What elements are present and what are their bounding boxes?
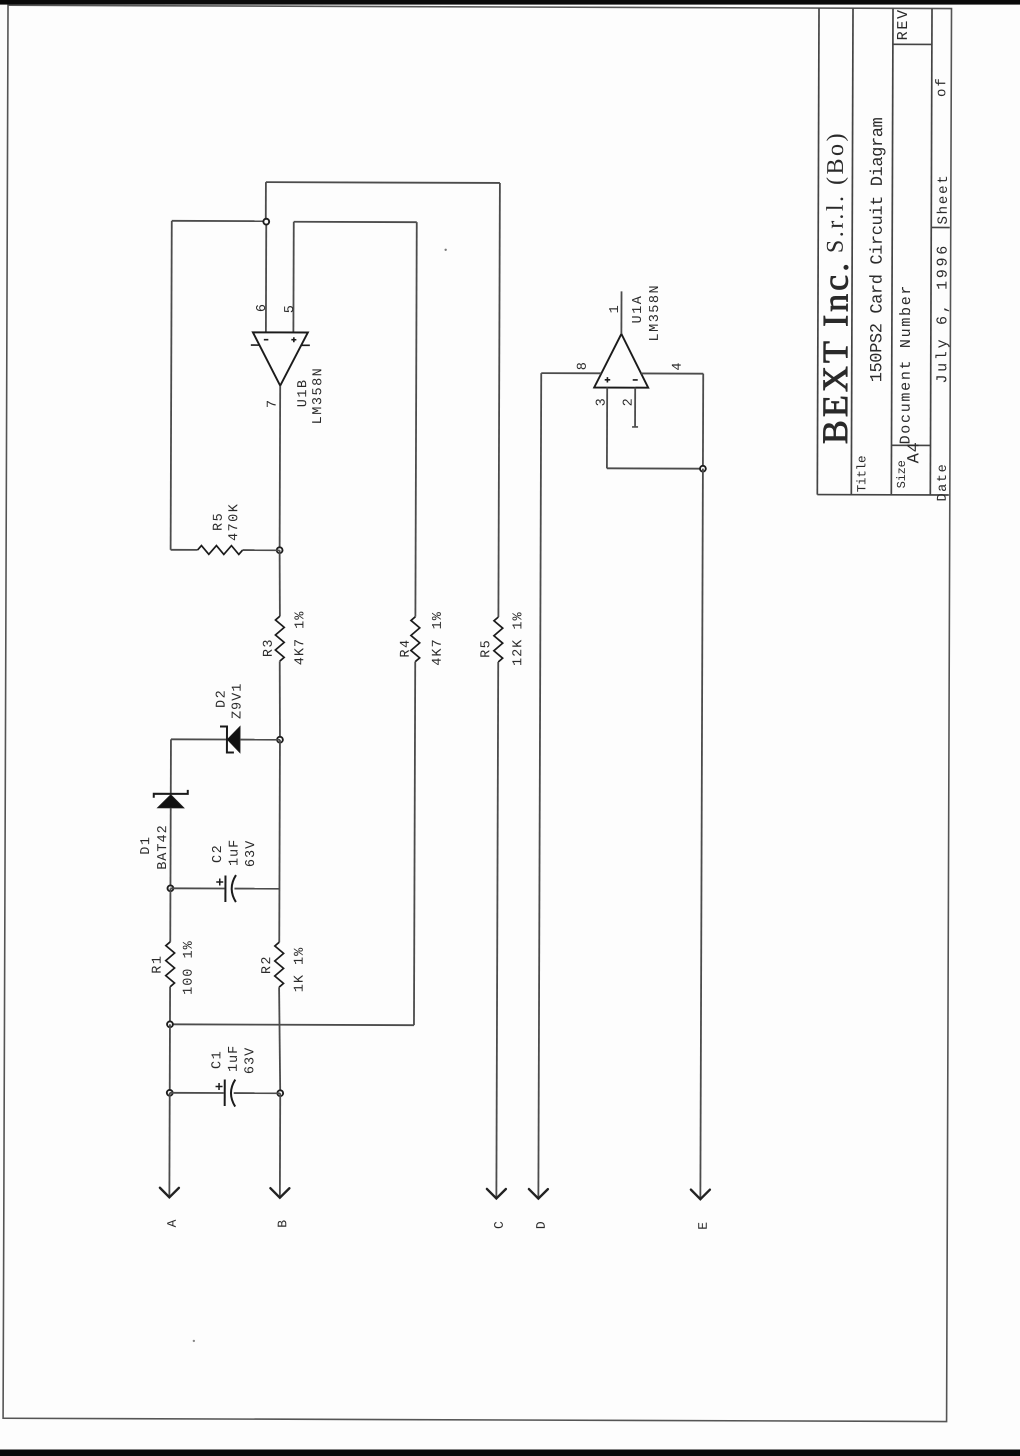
title block row divider (title/size) bbox=[891, 8, 893, 494]
U1B minus sign bbox=[264, 339, 268, 341]
svg-text:S.r.l. (Bo): S.r.l. (Bo) bbox=[823, 131, 849, 253]
resistor R4 zigzag bbox=[411, 617, 420, 662]
capacitor C2 curved plate bbox=[232, 875, 236, 902]
diode D1 triangle bbox=[158, 795, 184, 808]
svg-text:3: 3 bbox=[595, 398, 610, 406]
svg-text:1uF: 1uF bbox=[227, 1045, 242, 1072]
svg-text:U1B: U1B bbox=[296, 378, 311, 407]
svg-text:C1: C1 bbox=[210, 1050, 225, 1069]
U1A minus sign bbox=[633, 379, 638, 381]
wire C1 node to arrow B bbox=[279, 1093, 281, 1197]
node junction R5/pin7 bbox=[277, 547, 283, 553]
svg-text:1: 1 bbox=[608, 305, 623, 313]
svg-text:LM358N: LM358N bbox=[648, 284, 663, 342]
wire C2 right bbox=[234, 888, 279, 890]
svg-text:July 6, 1996: July 6, 1996 bbox=[934, 243, 951, 383]
wire pin 4 bbox=[641, 372, 703, 374]
svg-text:2: 2 bbox=[622, 398, 637, 406]
svg-text:REV: REV bbox=[895, 8, 912, 40]
wire R3 to D2 node bbox=[278, 661, 281, 740]
wire C1 left bbox=[170, 1092, 224, 1094]
svg-text:C2: C2 bbox=[211, 844, 226, 863]
connector arrow C bbox=[487, 1189, 506, 1199]
wire C2 node to R1 bbox=[169, 888, 171, 941]
svg-text:Title: Title bbox=[855, 456, 869, 493]
wire net C vertical upper bbox=[498, 183, 500, 617]
diode D2 zener bar bbox=[220, 726, 234, 752]
svg-text:B: B bbox=[275, 1220, 290, 1228]
svg-text:R3: R3 bbox=[262, 638, 277, 657]
svg-text:BEXT Inc.: BEXT Inc. bbox=[815, 260, 856, 444]
wire R4 to node A horizontal bbox=[170, 1023, 414, 1026]
svg-text:R1: R1 bbox=[151, 955, 166, 974]
wire left branch down to R5 bbox=[171, 221, 172, 550]
svg-text:8: 8 bbox=[576, 362, 591, 370]
speck bbox=[444, 249, 446, 251]
svg-text:4K7 1%: 4K7 1% bbox=[431, 611, 446, 666]
title block bottom edge bbox=[817, 494, 948, 496]
U1B power stub right bbox=[301, 344, 309, 346]
node junction pin6 bbox=[263, 219, 269, 225]
wire R5 left lead bbox=[171, 549, 198, 551]
scan edge bar bottom bbox=[0, 1450, 1020, 1456]
capacitor C2 plus plate bbox=[224, 876, 226, 902]
svg-text:D1: D1 bbox=[139, 836, 154, 855]
wire R5 right lead bbox=[243, 549, 280, 551]
wire net E vertical bbox=[700, 469, 703, 1199]
wire R1 to node A bbox=[169, 987, 171, 1024]
svg-text:1uF: 1uF bbox=[228, 839, 243, 866]
wire C1 right bbox=[234, 1092, 280, 1094]
op-amp U1A triangle bbox=[594, 334, 648, 388]
C1 plus sign bbox=[216, 1085, 223, 1087]
scan edge bar top bbox=[0, 0, 1020, 5]
wire net D vertical bbox=[538, 373, 541, 1198]
svg-text:63V: 63V bbox=[243, 1047, 258, 1074]
wire pin 2 stub bbox=[634, 388, 636, 427]
wire pin3 to node E bbox=[607, 467, 703, 469]
wire pin 5 vertical bbox=[292, 222, 294, 332]
svg-text:63V: 63V bbox=[244, 840, 259, 867]
wire pin 8 bbox=[541, 372, 601, 374]
svg-text:R2: R2 bbox=[260, 955, 275, 974]
svg-text:470K: 470K bbox=[227, 503, 242, 541]
wire net C vertical lower bbox=[496, 662, 498, 1198]
resistor R2 zigzag bbox=[275, 942, 284, 987]
svg-text:Size: Size bbox=[895, 460, 909, 488]
wire top horizontal (U1B out net to C) bbox=[266, 181, 500, 184]
wire pin4 corner down bbox=[702, 374, 704, 469]
capacitor C1 plus plate bbox=[224, 1080, 226, 1106]
wire C1 node to arrow A bbox=[168, 1093, 170, 1197]
svg-text:Z9V1: Z9V1 bbox=[231, 683, 246, 719]
wire pin 3 down bbox=[606, 388, 608, 469]
wire R4 net vertical lower bbox=[414, 662, 415, 1025]
U1B power stub left bbox=[251, 344, 259, 346]
node junction C1 right bbox=[277, 1090, 283, 1096]
wire pin6 junction to left branch bbox=[172, 220, 266, 222]
svg-text:D: D bbox=[534, 1221, 549, 1229]
resistor R5 12K zigzag bbox=[494, 617, 503, 662]
node junction D2 bbox=[277, 737, 283, 743]
node junction A net bbox=[167, 1021, 173, 1027]
svg-text:of: of bbox=[934, 76, 950, 97]
title block outer line bbox=[817, 8, 819, 494]
C2 plus sign bbox=[216, 881, 223, 883]
wire C2 left bbox=[170, 887, 224, 889]
diode D2 triangle bbox=[227, 727, 240, 753]
svg-text:Document Number: Document Number bbox=[897, 284, 915, 445]
REV box divider bbox=[893, 43, 932, 45]
svg-text:Date: Date bbox=[936, 463, 951, 502]
wire D2 left bbox=[171, 738, 226, 740]
title block row divider (size/date) bbox=[930, 8, 932, 494]
wire D1 to C2 node bbox=[169, 808, 171, 888]
svg-text:150PS2 Card Circuit Diagram: 150PS2 Card Circuit Diagram bbox=[868, 117, 888, 382]
wire D2 corner to D1 bbox=[170, 739, 172, 793]
node junction C2 left bbox=[168, 885, 174, 891]
svg-text:R5: R5 bbox=[212, 512, 227, 531]
diode D1 schottky bar bbox=[154, 790, 188, 798]
wire corner down to pin6 junction bbox=[265, 182, 267, 221]
wire D2 right bbox=[240, 739, 280, 741]
svg-text:E: E bbox=[696, 1222, 711, 1230]
title block row divider (company/title) bbox=[851, 8, 853, 494]
wire pin 1 stub bbox=[620, 291, 622, 333]
svg-text:4: 4 bbox=[671, 362, 686, 370]
svg-text:5: 5 bbox=[283, 305, 298, 313]
wire R2 to C1 node bbox=[279, 987, 281, 1093]
resistor R1 zigzag bbox=[166, 942, 175, 987]
connector arrow E bbox=[691, 1190, 710, 1200]
svg-text:R5: R5 bbox=[479, 639, 494, 658]
node junction E net bbox=[700, 466, 706, 472]
wire node A to C1 node bbox=[169, 1024, 171, 1092]
capacitor C1 curved plate bbox=[231, 1080, 235, 1107]
svg-text:D2: D2 bbox=[215, 689, 230, 708]
svg-text:A: A bbox=[165, 1219, 180, 1227]
svg-text:R4: R4 bbox=[399, 638, 414, 657]
wire pin 6 vertical bbox=[265, 221, 267, 332]
U1B plus sign bbox=[291, 339, 296, 341]
svg-text:7: 7 bbox=[266, 400, 281, 408]
svg-text:6: 6 bbox=[255, 304, 270, 312]
node junction C1 left bbox=[167, 1090, 173, 1096]
size/document divider bbox=[891, 444, 930, 446]
svg-text:Sheet: Sheet bbox=[936, 173, 952, 224]
svg-text:100 1%: 100 1% bbox=[182, 940, 197, 995]
connector arrow D bbox=[529, 1189, 548, 1199]
svg-text:C: C bbox=[492, 1221, 507, 1229]
connector arrow A bbox=[160, 1188, 179, 1198]
svg-text:1K 1%: 1K 1% bbox=[293, 947, 308, 993]
svg-text:U1A: U1A bbox=[631, 295, 646, 324]
wire R4 net vertical upper bbox=[415, 222, 416, 616]
wire pin 7 output bbox=[279, 386, 282, 550]
sheet box divider bbox=[931, 226, 949, 228]
op-amp U1B triangle bbox=[253, 332, 308, 385]
wire chain D2 node to R2 bbox=[278, 740, 281, 942]
connector arrow B bbox=[270, 1188, 289, 1198]
wire pin5 horizontal to R4 bbox=[294, 221, 417, 223]
svg-text:12K 1%: 12K 1% bbox=[511, 611, 526, 666]
U1A plus sign bbox=[605, 379, 610, 381]
resistor R5 470K zigzag bbox=[198, 546, 243, 555]
svg-text:LM358N: LM358N bbox=[311, 367, 326, 425]
svg-text:4K7 1%: 4K7 1% bbox=[293, 611, 308, 666]
svg-text:BAT42: BAT42 bbox=[156, 824, 171, 870]
resistor R3 zigzag bbox=[278, 550, 281, 616]
